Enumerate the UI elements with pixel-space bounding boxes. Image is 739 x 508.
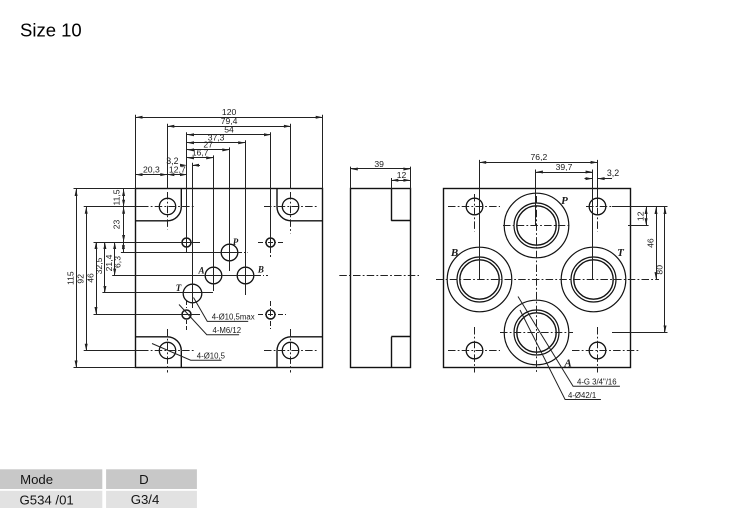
svg-text:Size 10: Size 10: [20, 20, 82, 41]
svg-text:4-M6/12: 4-M6/12: [213, 326, 242, 335]
svg-text:4-Ø10,5max: 4-Ø10,5max: [212, 313, 255, 322]
svg-text:39,7: 39,7: [556, 162, 573, 172]
svg-text:3,2: 3,2: [607, 168, 619, 178]
svg-text:G534 /01: G534 /01: [20, 492, 74, 507]
svg-text:A: A: [563, 357, 571, 369]
svg-text:6,3: 6,3: [113, 256, 123, 268]
svg-text:76,2: 76,2: [531, 152, 548, 162]
svg-text:39: 39: [374, 159, 384, 169]
svg-text:23: 23: [112, 220, 122, 230]
svg-text:Mode: Mode: [20, 472, 53, 487]
svg-text:32,5: 32,5: [94, 257, 104, 274]
svg-text:T: T: [617, 247, 625, 259]
svg-text:B: B: [450, 247, 458, 259]
svg-text:80: 80: [654, 265, 664, 275]
svg-text:B: B: [257, 265, 264, 275]
svg-text:P: P: [561, 195, 568, 207]
svg-text:11,5: 11,5: [112, 189, 122, 205]
svg-text:D: D: [139, 472, 149, 487]
svg-text:A: A: [197, 266, 204, 276]
svg-text:T: T: [176, 283, 182, 293]
svg-text:92: 92: [76, 274, 86, 284]
svg-text:12: 12: [635, 211, 645, 221]
svg-text:P: P: [233, 237, 239, 247]
svg-text:4-Ø42/1: 4-Ø42/1: [568, 391, 596, 400]
svg-text:46: 46: [645, 238, 655, 248]
svg-text:20,3: 20,3: [143, 164, 160, 174]
svg-text:4-Ø10,5: 4-Ø10,5: [197, 352, 226, 361]
svg-text:G3/4: G3/4: [131, 492, 160, 507]
svg-text:16,7: 16,7: [192, 148, 209, 158]
svg-text:54: 54: [224, 125, 234, 135]
svg-text:115: 115: [65, 271, 75, 285]
svg-text:12: 12: [397, 170, 407, 180]
svg-text:4-G 3/4"/16: 4-G 3/4"/16: [577, 378, 617, 387]
svg-text:12,7: 12,7: [169, 164, 186, 174]
